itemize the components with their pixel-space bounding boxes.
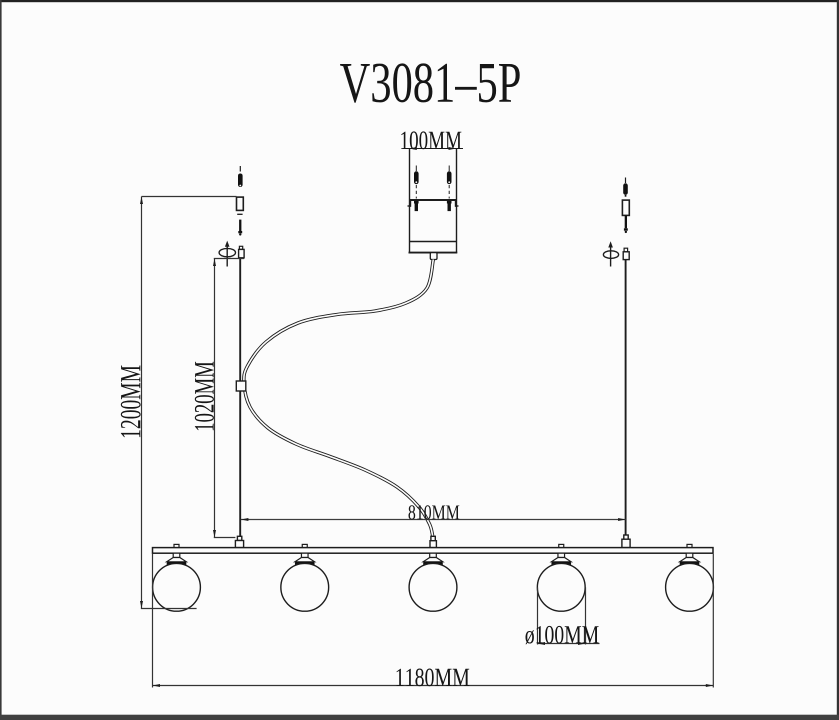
power cable (S-curve, double line) bbox=[244, 260, 433, 537]
globe G5 bbox=[666, 553, 714, 611]
left hanger: tick bbox=[237, 213, 242, 215]
cable fitting center (on bar) bbox=[430, 536, 436, 547]
dimension 1200MM bbox=[141, 197, 237, 609]
left hanger: pin bbox=[238, 220, 242, 236]
canopy U1 bbox=[409, 149, 458, 253]
title V3081-5P bbox=[340, 63, 520, 102]
dimension 100MM (canopy) bbox=[404, 148, 463, 150]
left rotation symbol bbox=[219, 241, 235, 267]
horizontal bar bbox=[153, 548, 714, 554]
left rod top cap bbox=[239, 246, 245, 257]
right hanger: screw bbox=[623, 178, 628, 197]
left suspension rod bbox=[239, 256, 241, 548]
right rotation symbol bbox=[603, 241, 618, 266]
dimension 810MM bbox=[241, 519, 626, 521]
right hanger: ceiling cup bbox=[622, 200, 629, 215]
globe G4 bbox=[537, 553, 585, 611]
globe G2 bbox=[281, 553, 329, 611]
dimension o100MM bbox=[538, 587, 600, 644]
nipple above bar, globe G2 bbox=[302, 544, 307, 547]
globe G1 bbox=[153, 553, 201, 611]
mounting bracket bbox=[408, 200, 459, 207]
left hanger: ceiling cup bbox=[237, 197, 244, 210]
rod fitting left (on bar) bbox=[235, 536, 243, 547]
nipple above bar, globe G1 bbox=[174, 544, 179, 547]
rod fitting right (on bar) bbox=[622, 535, 630, 548]
nipple above bar, globe G5 bbox=[687, 544, 692, 547]
cable gland bbox=[430, 253, 437, 260]
left hanger: screw bbox=[238, 166, 243, 187]
nipple above bar, globe G4 bbox=[559, 544, 564, 547]
right rod top cap bbox=[623, 248, 629, 259]
dimension 1180MM bbox=[153, 554, 714, 688]
screw S1 (left canopy screw) bbox=[414, 166, 419, 212]
cable clamp collar on left rod bbox=[236, 381, 246, 391]
screw S2 (right canopy screw) bbox=[447, 166, 452, 212]
right suspension rod bbox=[625, 260, 627, 548]
dimension 1020MM bbox=[214, 259, 244, 538]
globe G3 bbox=[409, 553, 457, 611]
right hanger: pin bbox=[624, 215, 628, 233]
